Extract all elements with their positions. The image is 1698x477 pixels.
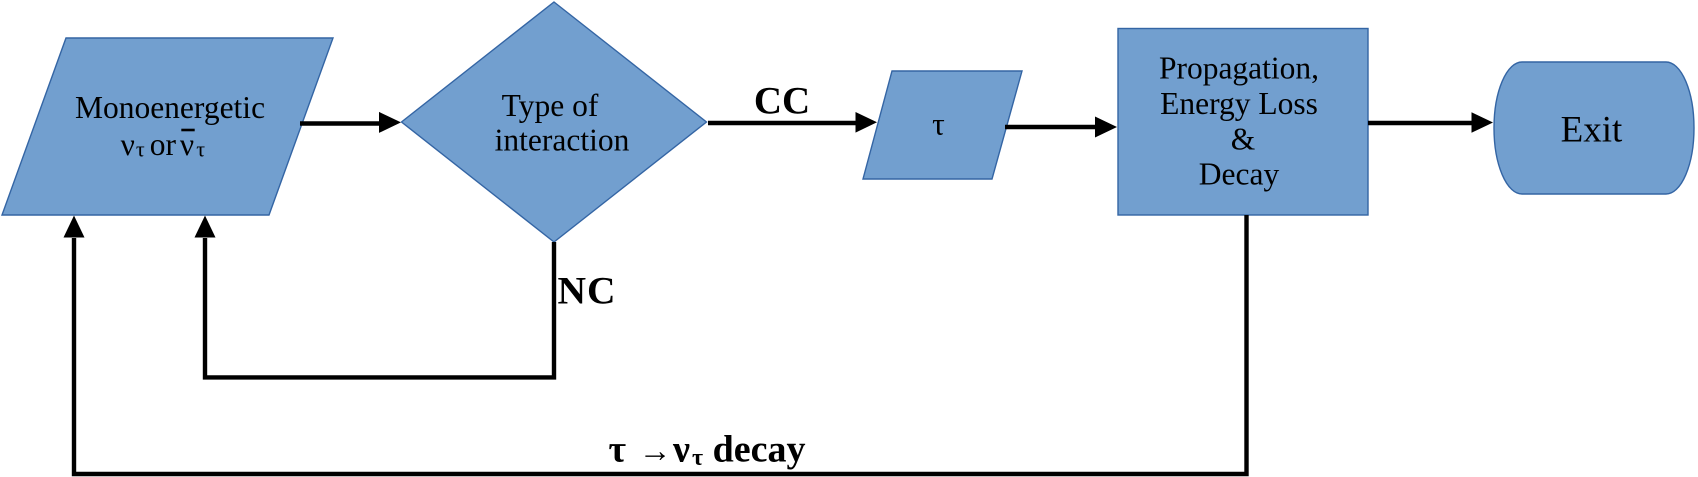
svg-text:τ: τ [609,429,627,471]
svg-text:τ: τ [196,137,205,162]
svg-text:interaction: interaction [495,123,630,158]
svg-text:ν: ν [180,127,194,162]
svg-text:ν: ν [121,127,135,162]
svg-text:Monoenergetic: Monoenergetic [75,90,265,125]
svg-text:decay: decay [713,429,806,471]
svg-text:NC: NC [558,269,617,313]
svg-text:Decay: Decay [1199,157,1280,192]
svg-text:&: & [1231,122,1256,157]
svg-text:or: or [150,127,177,162]
svg-text:τ: τ [692,445,703,471]
svg-text:→: → [639,434,672,470]
svg-text:τ: τ [932,107,945,142]
svg-text:ν: ν [672,429,690,471]
svg-text:τ: τ [136,137,145,162]
svg-text:Type of: Type of [502,88,599,123]
svg-text:Exit: Exit [1561,110,1623,151]
svg-text:Propagation,: Propagation, [1159,51,1319,86]
svg-text:Energy Loss: Energy Loss [1160,86,1318,121]
svg-text:CC: CC [754,80,810,123]
